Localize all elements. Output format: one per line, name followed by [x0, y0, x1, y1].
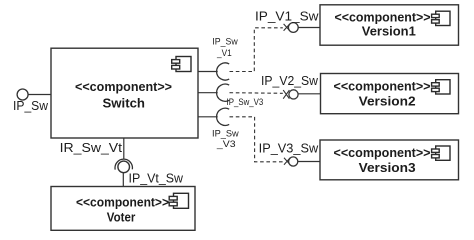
component icon (Version3)	[432, 146, 450, 160]
wire dashed socket1 to Version1 lollipop	[230, 28, 283, 72]
svg-text:Voter: Voter	[107, 209, 136, 224]
svg-text:<<component>>: <<component>>	[75, 79, 172, 94]
wire Switch to socket 2 stub	[198, 92, 218, 94]
required interface socket IR_Sw_Vt (opens down)	[115, 159, 132, 169]
wire ball to Voter	[122, 173, 124, 187]
wire dashed socket2 to Version2 lollipop	[230, 92, 283, 95]
component Voter	[51, 187, 195, 231]
svg-text:IP_Vt_Sw: IP_Vt_Sw	[129, 171, 184, 185]
svg-text:IP_V1_Sw: IP_V1_Sw	[255, 10, 320, 24]
component icon (Voter)	[169, 193, 188, 208]
svg-text:<<component>>: <<component>>	[76, 194, 169, 209]
wire Switch to socket 3 stub	[198, 116, 218, 118]
junction x-mark (Version1)	[284, 24, 290, 31]
wire ball to Version1	[298, 27, 320, 29]
svg-text:Switch: Switch	[103, 95, 146, 110]
component Version1	[320, 5, 459, 45]
component icon (Version2)	[432, 80, 450, 94]
svg-text:Version1: Version1	[362, 23, 416, 38]
junction x-mark (Version3)	[284, 158, 290, 165]
provided interface ball IP_V2_Sw	[289, 90, 298, 99]
wire Switch to socket 1 stub	[198, 71, 218, 73]
wire ball to Version2	[298, 93, 320, 95]
svg-text:Version2: Version2	[359, 93, 416, 108]
svg-text:Version3: Version3	[359, 160, 416, 175]
svg-text:IP_Sw_V3: IP_Sw_V3	[227, 97, 264, 108]
component Switch	[51, 48, 198, 138]
svg-text:_V1: _V1	[216, 48, 232, 59]
wire ball to Version3	[298, 161, 320, 163]
provided interface ball IP_Vt_Sw	[118, 161, 130, 173]
svg-text:IP_V3_Sw: IP_V3_Sw	[259, 142, 319, 156]
wire Switch to IR_Sw_Vt socket	[123, 138, 125, 159]
provided interface ball IP_Sw	[17, 89, 28, 100]
junction x-mark (Version2)	[283, 90, 289, 99]
provided interface ball IP_V3_Sw	[289, 157, 298, 166]
svg-text:IP_Sw: IP_Sw	[212, 36, 238, 47]
svg-text:<<component>>: <<component>>	[334, 145, 431, 160]
svg-text:<<component>>: <<component>>	[334, 78, 431, 93]
svg-text:IP_V2_Sw: IP_V2_Sw	[261, 74, 319, 88]
component icon (Version1)	[432, 11, 450, 25]
required interface socket (to Version2)	[217, 84, 230, 101]
svg-text:<<component>>: <<component>>	[335, 10, 431, 25]
component icon (Switch)	[172, 57, 191, 72]
component Version2	[321, 74, 459, 114]
required interface socket (to Version1)	[217, 63, 230, 80]
svg-text:_V3: _V3	[216, 139, 236, 150]
svg-text:IP_Sw: IP_Sw	[13, 99, 49, 113]
provided interface ball IP_V1_Sw	[288, 23, 298, 33]
wire IP_Sw lollipop stem	[28, 94, 51, 96]
required interface socket (to Version3)	[217, 108, 230, 125]
svg-text:IP_Sw: IP_Sw	[212, 128, 239, 139]
svg-text:IR_Sw_Vt: IR_Sw_Vt	[60, 141, 123, 155]
wire dashed socket3 to Version3 lollipop	[230, 117, 284, 162]
component Version3	[320, 140, 459, 180]
